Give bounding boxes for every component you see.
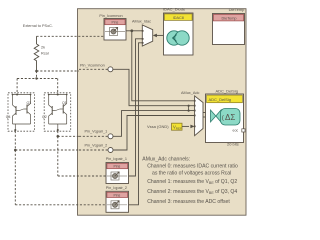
component ADC_DelSig (206, 94, 244, 143)
svg-text:Q3: Q3 (27, 101, 32, 105)
component Pin_Iqpair_2 (106, 186, 129, 213)
transistor pair box Q3 Q4 (8, 93, 35, 131)
label DieTemp title (229, 7, 246, 12)
wire emitter tie left pair (13, 124, 31, 131)
wire collector tie right pair (48, 93, 68, 105)
transistor Q2 (42, 105, 56, 124)
transistor pair box Q1 Q2 (44, 93, 70, 131)
svg-text:Pin_Iqpair_1: Pin_Iqpair_1 (106, 157, 127, 161)
wire dashed Rcal bottom to Pin_Vcommon (37, 70, 80, 72)
svg-text:Pin_Vqpair_2: Pin_Vqpair_2 (85, 143, 108, 147)
node Rcal bottom junction (35, 70, 38, 73)
label AMux_Adc (181, 91, 199, 95)
svg-text:Q4: Q4 (6, 115, 11, 119)
svg-text:DieTemp: DieTemp (229, 7, 246, 12)
svg-text:External to PSoC.: External to PSoC. (23, 24, 53, 28)
wire emitter tie right pair (49, 124, 67, 131)
label AMux_Idac (132, 20, 151, 24)
label Vssa (GND) (147, 124, 169, 129)
resistor Rcal (34, 36, 49, 71)
label AMux_Adc channels text (142, 157, 238, 205)
pin eoc (233, 129, 246, 133)
component Pin_Vqpair_1 terminal (79, 129, 113, 139)
component IDAC8 (164, 13, 194, 55)
wire AMux_Idac out2 to Pin_Iqpair_2 (129, 43, 143, 205)
svg-text:ADC_DelSig: ADC_DelSig (209, 97, 231, 102)
mux AMux_Idac (142, 25, 153, 46)
svg-text:Pin_Iqpair_2: Pin_Iqpair_2 (106, 186, 127, 190)
wire Icommon sense down to AMux_Adc (132, 31, 195, 101)
svg-text:2k: 2k (41, 46, 45, 50)
wire Vref to AMux_Adc with arrow (182, 125, 195, 129)
svg-text:IDAC_Diode: IDAC_Diode (163, 7, 186, 12)
svg-text:AMux_Idac: AMux_Idac (132, 20, 151, 24)
svg-text:Q1: Q1 (62, 101, 67, 105)
svg-text:Q2: Q2 (42, 115, 47, 119)
wire Pin_Vqpair_1 to AMux_Adc (113, 111, 195, 137)
svg-text:Pin_Vqpair_1: Pin_Vqpair_1 (85, 129, 108, 133)
PSoC block background (78, 9, 247, 216)
svg-text:eoc: eoc (233, 129, 239, 133)
transistor Q1 (56, 101, 67, 124)
node differential jumper on AMux_Adc inputs (188, 105, 190, 112)
wire dashed right pair to Vqpair_1 / Iqpair_1 (57, 131, 107, 176)
svg-text:IDAC8: IDAC8 (173, 16, 184, 20)
svg-text:AMux_Adc: AMux_Adc (181, 91, 199, 95)
svg-text:Channel 2: measures the VBE o: Channel 2: measures the VBE of Q3, Q4 (147, 189, 237, 195)
svg-text:Vssa (GND): Vssa (GND) (147, 124, 169, 129)
wire AMux_Adc out to ADC (203, 113, 211, 118)
label External to PSoC (23, 24, 53, 28)
wire AMux_Idac out1 to Pin_Iqpair_1 (129, 39, 143, 176)
svg-text:Channel 1: measures the VBE o: Channel 1: measures the VBE of Q1, Q2 (147, 179, 237, 185)
svg-text:AMux_Adc channels:: AMux_Adc channels: (142, 157, 190, 163)
wire Pin_Vqpair_2 to AMux_Adc (113, 116, 195, 151)
label 20 bits (227, 142, 239, 147)
svg-text:ADC_DelSig: ADC_DelSig (216, 89, 238, 94)
wire Pin_Icommon to AMux_Idac (126, 29, 142, 32)
svg-text:20 bits: 20 bits (227, 142, 239, 147)
wire dashed left pair to Vqpair_2 / Iqpair_2 (14, 131, 106, 205)
svg-text:Channel 0: measures IDAC curr: Channel 0: measures IDAC current ratio (147, 163, 238, 169)
svg-text:Pins: Pins (112, 21, 119, 25)
label ADC_DelSig title (216, 89, 238, 94)
svg-text:as the ratio of voltages acros: as the ratio of voltages across Rcal (152, 170, 231, 176)
label IDAC_Diode (163, 7, 186, 12)
wire IDAC to AMux_Idac with arrow (153, 34, 164, 38)
wire Pin_Vcommon to AMux_Adc (113, 69, 195, 105)
component DieTemp (213, 14, 245, 45)
transistor Q4 (6, 105, 20, 124)
mux AMux_Adc (194, 96, 203, 136)
svg-text:Rcal: Rcal (41, 52, 49, 56)
wire dashed top rail (Rcal top to Pin_Icommon) (37, 35, 105, 37)
component Pin_Vqpair_2 terminal (79, 143, 113, 152)
wire dashed base rail (17, 71, 58, 95)
component Pin_Iqpair_1 (106, 157, 129, 184)
svg-text:DieTemp: DieTemp (222, 17, 237, 21)
svg-text:ΔΣ: ΔΣ (225, 113, 235, 122)
svg-text:Pin_Vcommon: Pin_Vcommon (80, 64, 105, 68)
svg-text:Pin_Icommon: Pin_Icommon (99, 14, 122, 18)
node Vref tag (172, 123, 183, 130)
transistor Q3 (20, 101, 32, 124)
svg-text:Pins: Pins (114, 193, 121, 197)
icon delta-sigma modulator (211, 109, 241, 126)
wire collector tie left pair (12, 93, 32, 105)
svg-text:Pins: Pins (114, 165, 121, 169)
svg-text:Channel 3: measures the ADC o: Channel 3: measures the ADC offset (147, 199, 230, 205)
component Pin_Icommon (99, 14, 126, 40)
component Pin_Vcommon terminal (79, 64, 113, 72)
